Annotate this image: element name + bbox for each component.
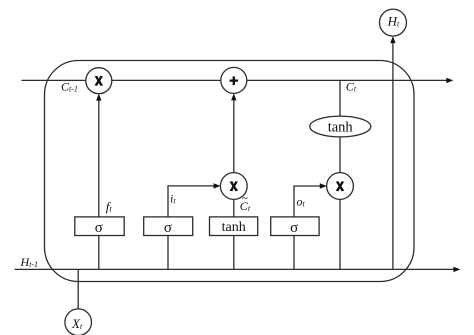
svg-text:ot: ot [297, 195, 306, 209]
svg-text:Ht-1: Ht-1 [20, 255, 39, 269]
svg-text:tanh: tanh [222, 220, 246, 235]
svg-text:tanh: tanh [328, 120, 354, 136]
svg-text:ft: ft [106, 199, 113, 214]
svg-text:σ: σ [95, 220, 103, 236]
svg-text:it: it [170, 192, 176, 206]
svg-text:σ: σ [290, 220, 298, 236]
svg-text:Ct-1: Ct-1 [61, 80, 78, 94]
svg-text:Ct: Ct [346, 80, 357, 94]
svg-text:σ: σ [164, 220, 172, 236]
svg-text:~: ~ [242, 193, 248, 205]
